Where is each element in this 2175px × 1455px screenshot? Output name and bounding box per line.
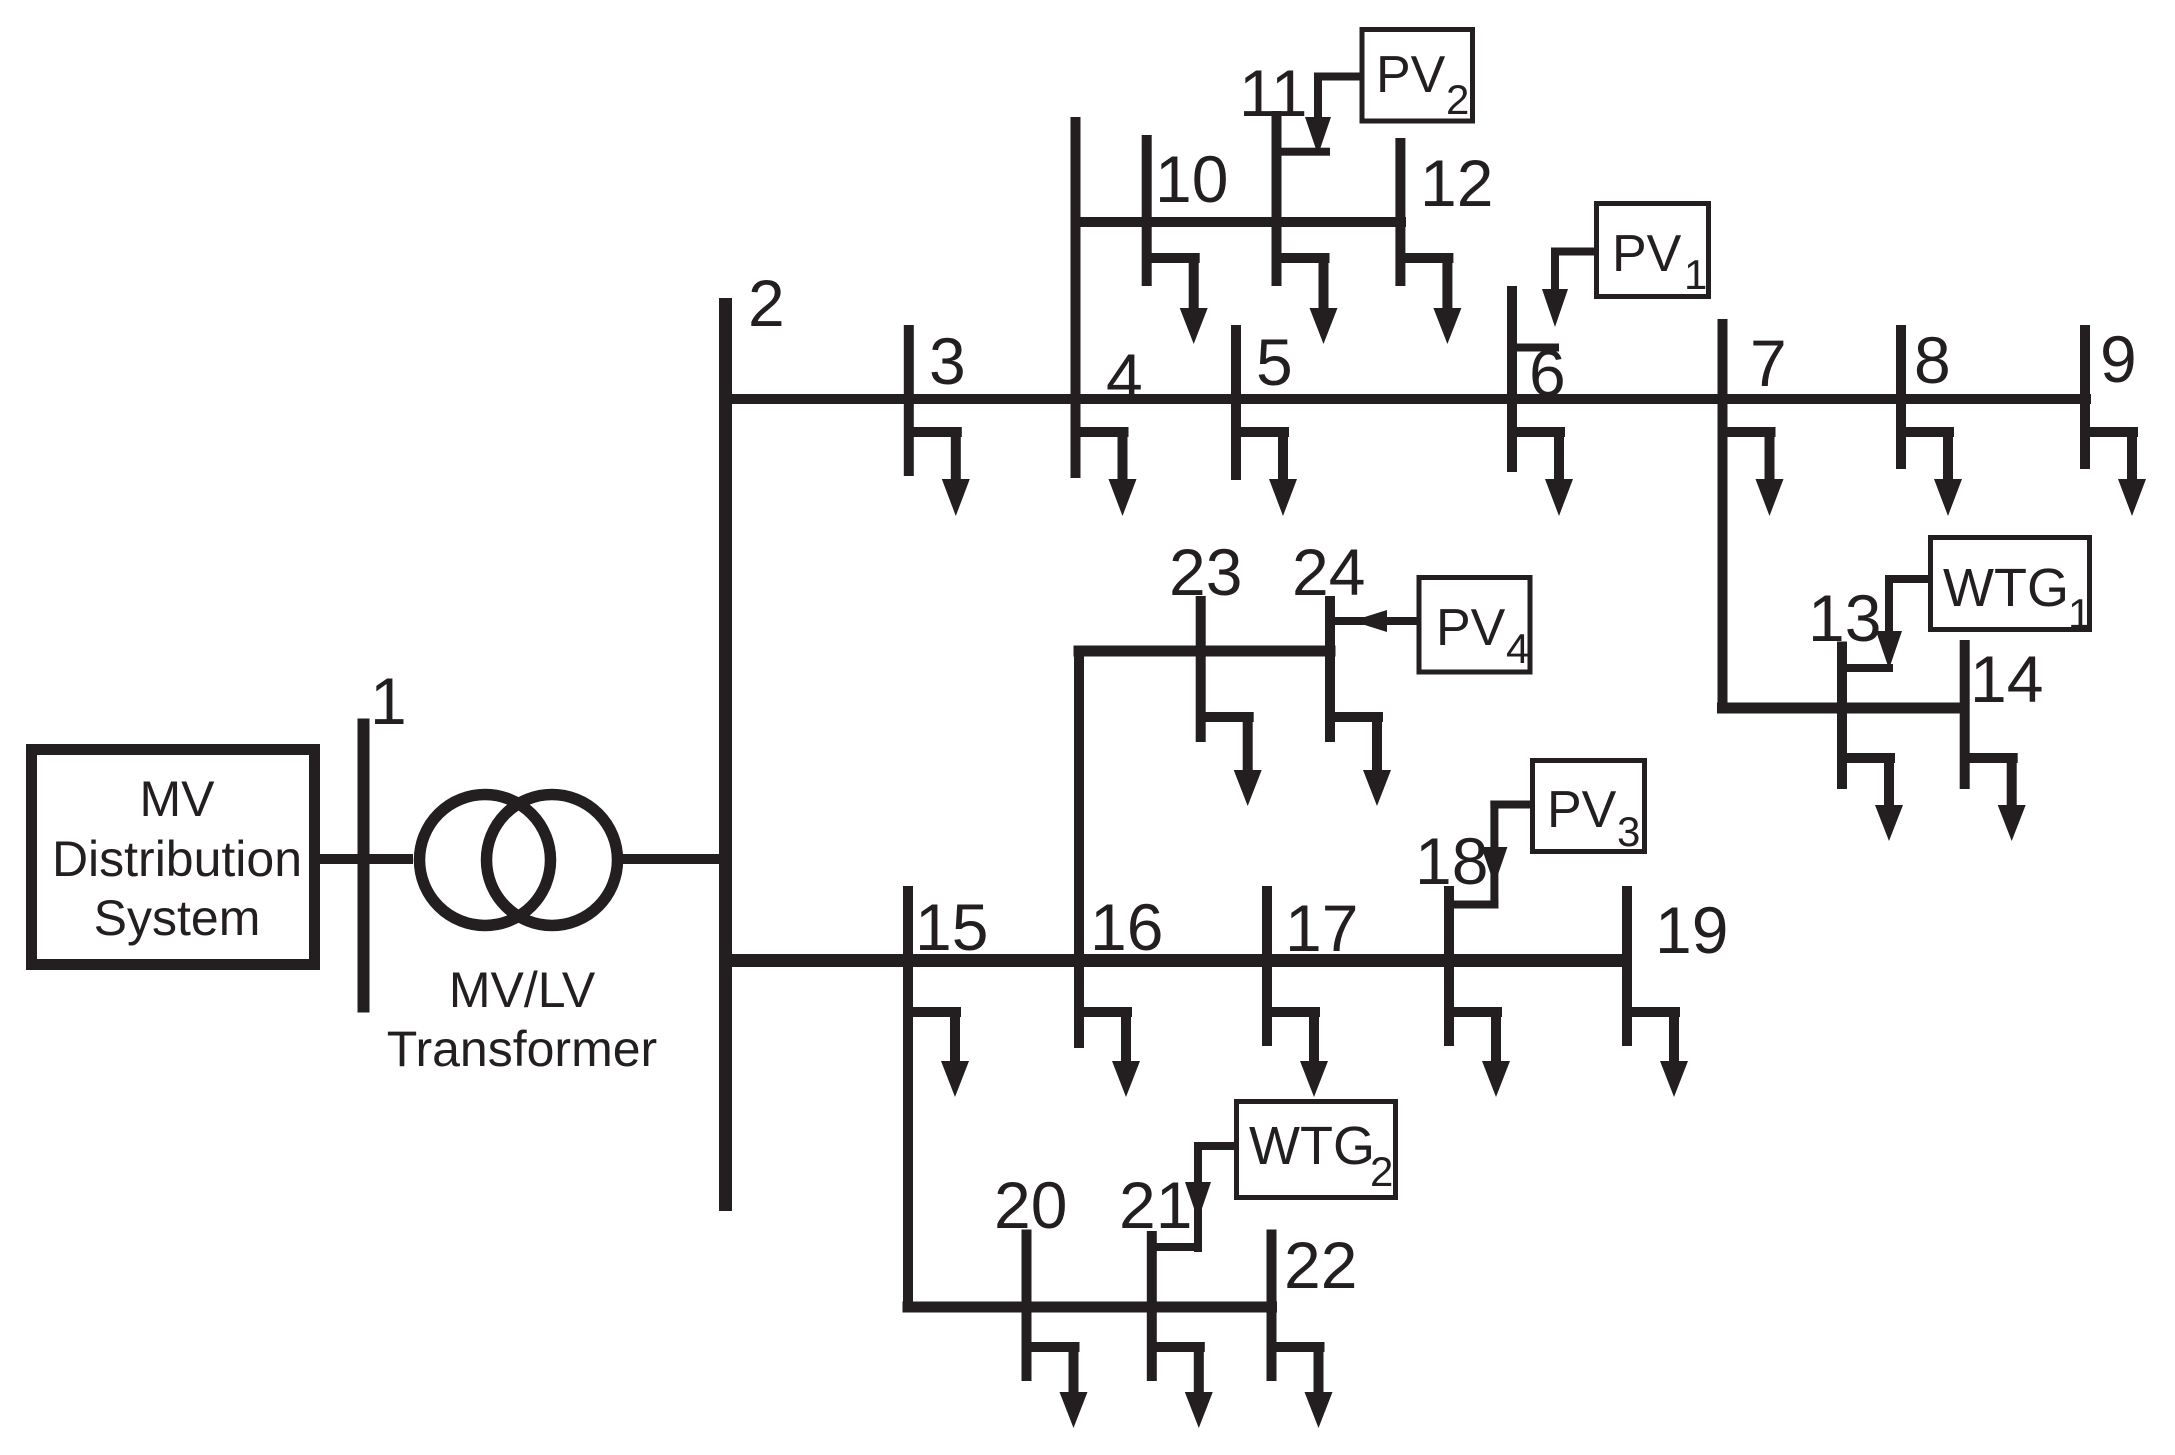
PV1 box <box>1597 204 1709 299</box>
svg-text:1: 1 <box>370 664 407 738</box>
svg-text:PV: PV <box>1547 781 1617 839</box>
label bus 12 <box>1420 146 1493 220</box>
bus 6 <box>1507 286 1517 472</box>
bus 15 (riser down to sub-feeder 20-22) <box>903 886 913 1313</box>
WTG1 box <box>1931 538 2092 638</box>
bus 9 <box>2080 325 2090 469</box>
load arrow bus 14 <box>1965 753 2026 841</box>
svg-text:3: 3 <box>1617 808 1640 855</box>
label bus 15 <box>915 890 988 964</box>
svg-text:2: 2 <box>1446 76 1469 123</box>
load arrow bus 7 <box>1723 427 1784 516</box>
bus 24 <box>1325 596 1335 742</box>
svg-text:3: 3 <box>929 324 966 398</box>
bus 22 <box>1267 1230 1277 1382</box>
bus 19 <box>1622 886 1632 1046</box>
bus 20 <box>1022 1230 1032 1382</box>
bus 8 <box>1896 325 1906 469</box>
svg-text:4: 4 <box>1506 625 1529 672</box>
load arrow bus 20 <box>1027 1342 1088 1428</box>
label bus 2 <box>748 266 785 340</box>
svg-text:MV: MV <box>140 771 216 827</box>
bus 7 (riser down to sub-feeder 13-14) <box>1718 319 1728 714</box>
label bus 23 <box>1169 535 1242 609</box>
load arrow bus 11 <box>1277 253 1338 344</box>
label bus 19 <box>1655 893 1728 967</box>
svg-text:18: 18 <box>1415 824 1488 898</box>
riser bus 16 to sub-feeder 23-24 <box>1074 646 1084 1049</box>
svg-text:MV/LV: MV/LV <box>449 962 596 1018</box>
bus 17 <box>1262 886 1272 1046</box>
svg-text:8: 8 <box>1914 323 1951 397</box>
sub-feeder wire buses 13-14 <box>1717 703 1967 714</box>
load arrow bus 21 <box>1152 1342 1213 1428</box>
svg-text:2: 2 <box>748 266 785 340</box>
load arrow bus 8 <box>1901 427 1962 516</box>
PV4 box <box>1419 578 1530 673</box>
svg-text:4: 4 <box>1106 340 1143 414</box>
svg-text:PV: PV <box>1612 225 1682 283</box>
sub-feeder wire buses 20-22 <box>903 1302 1278 1313</box>
bus 3 <box>904 325 914 476</box>
label bus 11 <box>1239 56 1308 130</box>
svg-text:WTG: WTG <box>1249 1116 1375 1176</box>
svg-text:Distribution: Distribution <box>52 831 302 887</box>
svg-text:15: 15 <box>915 890 988 964</box>
label bus 7 <box>1750 326 1787 400</box>
load arrow bus 13 <box>1842 753 1903 841</box>
label bus 9 <box>2100 322 2137 396</box>
bus 4 (with riser to sub-feeder 10-12) <box>1071 117 1081 478</box>
label bus 5 <box>1256 325 1293 399</box>
transformer MV/LV (two overlapping circles) <box>420 795 618 926</box>
load arrow bus 23 <box>1201 712 1262 806</box>
label bus 24 <box>1292 535 1365 609</box>
svg-text:7: 7 <box>1750 326 1787 400</box>
svg-text:WTG: WTG <box>1943 558 2069 618</box>
load arrow bus 6 <box>1512 427 1573 516</box>
bus 5 <box>1231 325 1241 480</box>
bus 12 <box>1395 138 1405 286</box>
load arrow bus 12 <box>1400 253 1461 344</box>
svg-text:System: System <box>94 890 261 946</box>
wire from transformer to bus 2 <box>616 854 726 864</box>
load arrow bus 3 <box>909 427 970 516</box>
wire WTG1 to bus 13 <box>1842 575 1931 672</box>
load arrow bus 22 <box>1272 1342 1333 1428</box>
bus 23 <box>1196 596 1206 742</box>
load arrow bus 9 <box>2085 427 2146 516</box>
svg-text:10: 10 <box>1155 142 1228 216</box>
svg-text:20: 20 <box>994 1168 1067 1242</box>
label bus 1 <box>370 664 407 738</box>
sub-feeder wire buses 10-12 <box>1071 217 1407 227</box>
label bus 14 <box>1970 642 2043 716</box>
svg-text:21: 21 <box>1119 1168 1192 1242</box>
bus 16 <box>1074 886 1084 1048</box>
svg-text:11: 11 <box>1239 56 1308 130</box>
label bus 22 <box>1284 1228 1357 1302</box>
label bus 21 <box>1119 1168 1192 1242</box>
svg-text:24: 24 <box>1292 535 1365 609</box>
bus 18 <box>1444 886 1454 1046</box>
lower feeder wire <box>725 954 1632 967</box>
bus 13 <box>1837 642 1847 790</box>
sub-feeder wire buses 23-24 <box>1074 646 1336 657</box>
svg-text:PV: PV <box>1376 46 1446 104</box>
label bus 6 <box>1529 336 1566 410</box>
wire WTG2 to bus 21 <box>1152 1142 1237 1252</box>
label bus 17 <box>1285 891 1358 965</box>
label bus 18 <box>1415 824 1488 898</box>
svg-text:17: 17 <box>1285 891 1358 965</box>
label bus 4 <box>1106 340 1143 414</box>
svg-text:14: 14 <box>1970 642 2043 716</box>
load arrow bus 18 <box>1449 1007 1510 1097</box>
WTG2 box <box>1237 1102 1396 1198</box>
svg-text:13: 13 <box>1808 581 1881 655</box>
svg-text:5: 5 <box>1256 325 1293 399</box>
load arrow bus 4 <box>1076 427 1137 516</box>
bus 14 <box>1960 640 1970 789</box>
bus 1 <box>358 719 370 1013</box>
wire from MV box to transformer <box>314 854 413 864</box>
svg-text:19: 19 <box>1655 893 1728 967</box>
bus 21 <box>1147 1231 1157 1381</box>
upper feeder wire <box>725 394 2091 404</box>
load arrow bus 16 <box>1079 1007 1140 1097</box>
load arrow bus 19 <box>1627 1007 1688 1097</box>
svg-text:Transformer: Transformer <box>387 1021 657 1077</box>
label bus 8 <box>1914 323 1951 397</box>
wire PV2 to bus 11 <box>1277 73 1363 156</box>
svg-text:23: 23 <box>1169 535 1242 609</box>
load arrow bus 10 <box>1147 253 1208 344</box>
svg-text:9: 9 <box>2100 322 2137 396</box>
svg-text:12: 12 <box>1420 146 1493 220</box>
load arrow bus 15 <box>908 1007 969 1097</box>
bus 2 <box>719 298 732 1211</box>
load arrow bus 24 <box>1330 712 1391 806</box>
label bus 10 <box>1155 142 1228 216</box>
label bus 16 <box>1090 890 1163 964</box>
label MV/LV Transformer <box>387 962 657 1077</box>
PV3 box <box>1533 761 1645 856</box>
label bus 3 <box>929 324 966 398</box>
wire PV3 to bus 18 <box>1449 801 1533 909</box>
svg-text:2: 2 <box>1370 1148 1393 1195</box>
load arrow bus 5 <box>1236 427 1297 516</box>
svg-text:PV: PV <box>1436 599 1506 657</box>
label bus 13 <box>1808 581 1881 655</box>
wire PV1 to bus 6 <box>1510 248 1597 352</box>
svg-text:1: 1 <box>2068 590 2091 637</box>
MV distribution system box <box>32 750 315 965</box>
svg-text:22: 22 <box>1284 1228 1357 1302</box>
bus 11 <box>1272 111 1282 286</box>
PV2 box <box>1362 30 1473 124</box>
label bus 20 <box>994 1168 1067 1242</box>
load arrow bus 17 <box>1267 1007 1328 1097</box>
svg-text:16: 16 <box>1090 890 1163 964</box>
svg-text:1: 1 <box>1684 251 1707 298</box>
wire PV4 to bus 24 (left arrow) <box>1330 610 1419 632</box>
bus 10 <box>1142 135 1152 286</box>
